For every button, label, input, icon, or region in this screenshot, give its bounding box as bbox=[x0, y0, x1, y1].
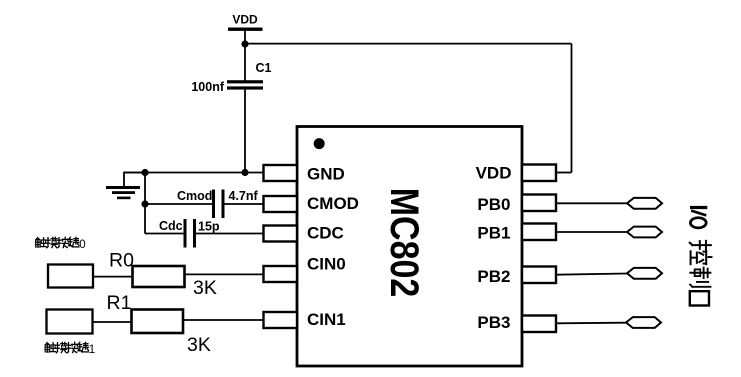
capacitor Cdc bbox=[184, 219, 197, 248]
svg-text:VDD: VDD bbox=[476, 164, 512, 183]
pin PB1 box bbox=[522, 224, 556, 241]
wire CDC row left bbox=[145, 233, 184, 235]
connector flag PB0 bbox=[627, 198, 662, 209]
wire PB3 to flag bbox=[556, 322, 626, 325]
pin CIN1 box bbox=[264, 312, 298, 328]
IC U1 name MC802 bbox=[382, 188, 427, 298]
svg-text:GND: GND bbox=[307, 165, 345, 184]
svg-text:15p: 15p bbox=[198, 220, 220, 234]
svg-text:CIN1: CIN1 bbox=[307, 310, 346, 329]
svg-text:R0: R0 bbox=[109, 250, 134, 272]
IC U1 pin-1 marker dot bbox=[314, 138, 325, 149]
capacitor C1 bbox=[227, 80, 263, 89]
connector flag PB2 bbox=[627, 268, 662, 279]
glyph 触 bbox=[36, 238, 46, 247]
wire PB1 to flag bbox=[556, 231, 627, 233]
wire left bus vertical bbox=[144, 173, 146, 234]
pin GND box bbox=[264, 165, 298, 181]
wire VDD bar to junction bbox=[244, 31, 246, 44]
node bus top junction bbox=[141, 169, 148, 176]
svg-text:R1: R1 bbox=[107, 292, 132, 314]
svg-text:C1: C1 bbox=[256, 61, 272, 75]
pin PB0 box bbox=[522, 195, 556, 212]
svg-text:VDD: VDD bbox=[232, 13, 258, 27]
node VDD junction bbox=[241, 40, 248, 47]
node CMOD row junction bbox=[141, 200, 148, 207]
svg-text:4.7nf: 4.7nf bbox=[229, 189, 259, 203]
glyph 摸 bbox=[56, 342, 67, 353]
wire CMOD row left bbox=[145, 203, 212, 205]
svg-text:CDC: CDC bbox=[307, 224, 344, 243]
svg-text:3K: 3K bbox=[187, 334, 211, 356]
wire PB0 to flag bbox=[556, 202, 627, 204]
pin VDD box bbox=[522, 165, 556, 182]
glyph 口 bbox=[690, 291, 709, 305]
svg-text:CIN0: CIN0 bbox=[307, 255, 346, 274]
pin CIN0 box bbox=[264, 266, 298, 282]
capacitor Cmod bbox=[212, 190, 225, 219]
svg-text:0: 0 bbox=[79, 239, 85, 251]
wire CMOD row right bbox=[225, 203, 264, 205]
svg-text:PB3: PB3 bbox=[477, 313, 510, 332]
pin CDC box bbox=[264, 226, 298, 242]
ground bbox=[106, 186, 140, 199]
label 触摸按键0 bbox=[36, 237, 86, 251]
svg-text:CMOD: CMOD bbox=[307, 194, 359, 213]
svg-text:Cmod: Cmod bbox=[177, 189, 212, 203]
node C1/GND rail junction bbox=[241, 169, 248, 176]
connector flag PB3 bbox=[626, 317, 661, 328]
svg-text:PB2: PB2 bbox=[477, 267, 510, 286]
wire R1 to CIN1 pin bbox=[183, 319, 264, 321]
wire into VDD pin bbox=[556, 172, 572, 174]
wire CDC row right bbox=[196, 233, 264, 235]
wire ground riser bbox=[124, 173, 145, 187]
wire PB2 to flag bbox=[556, 274, 627, 275]
svg-text:Cdc: Cdc bbox=[159, 219, 183, 233]
glyph 按 bbox=[67, 342, 78, 353]
connector flag PB1 bbox=[627, 227, 662, 238]
label I/O控制口 (vertical) bbox=[690, 206, 712, 306]
glyph 键 bbox=[78, 342, 89, 352]
wire C1 top lead bbox=[244, 44, 246, 81]
power symbol VDD bbox=[228, 13, 263, 31]
svg-text:MC802: MC802 bbox=[382, 188, 427, 298]
glyph 键 bbox=[68, 237, 79, 247]
wire top horizontal VDD rail bbox=[245, 43, 572, 45]
glyph O (rotated) bbox=[690, 218, 706, 228]
svg-text:3K: 3K bbox=[193, 277, 217, 299]
wire R0 to CIN0 pin bbox=[185, 273, 264, 275]
wire C1 bottom lead bbox=[244, 90, 246, 173]
touch pad 0 bbox=[48, 265, 93, 288]
svg-text:100nf: 100nf bbox=[191, 80, 224, 94]
glyph 控 bbox=[690, 241, 712, 264]
label 触摸按键1 bbox=[45, 342, 95, 356]
svg-text:PB1: PB1 bbox=[477, 224, 510, 243]
glyph I (rotated) bbox=[690, 206, 707, 209]
pin CMOD box bbox=[264, 196, 298, 212]
resistor R0 bbox=[133, 266, 185, 287]
glyph 摸 bbox=[46, 237, 57, 248]
wire pad0 to R0 bbox=[93, 276, 133, 278]
touch pad 1 bbox=[47, 310, 93, 334]
pin PB3 box bbox=[522, 316, 556, 333]
glyph / (rotated) bbox=[691, 211, 706, 216]
wire GND row horizontal bbox=[124, 172, 264, 174]
IC U1 MC802 body bbox=[297, 127, 522, 367]
resistor R1 bbox=[132, 310, 184, 334]
glyph 触 bbox=[45, 343, 55, 352]
pin PB2 box bbox=[522, 267, 556, 284]
wire right vertical down to VDD pin bbox=[571, 44, 573, 173]
wire pad1 to R1 bbox=[93, 321, 132, 323]
glyph 按 bbox=[57, 237, 68, 248]
glyph 制 bbox=[690, 268, 710, 287]
svg-text:1: 1 bbox=[89, 344, 95, 356]
svg-text:PB0: PB0 bbox=[477, 195, 510, 214]
